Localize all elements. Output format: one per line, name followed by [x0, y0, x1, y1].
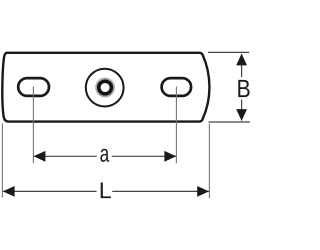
- arrowhead B bottom: [236, 109, 247, 121]
- left slot: [18, 78, 49, 96]
- arrowhead B top: [236, 54, 247, 66]
- extension line B top: [208, 51, 249, 53]
- arrowhead L left: [3, 186, 15, 197]
- extension line L right: [208, 124, 210, 199]
- center hole gray ring: [96, 79, 114, 97]
- arrowhead a left: [34, 151, 46, 162]
- right slot: [162, 78, 192, 96]
- arrowhead L right: [197, 186, 209, 197]
- label a: [100, 149, 109, 162]
- dimension line B (bottom segment): [241, 100, 243, 121]
- dimension line B (top segment): [241, 54, 243, 77]
- dimension line a (left segment): [34, 155, 97, 157]
- plate outline: [2, 53, 209, 122]
- label B: [238, 80, 249, 97]
- extension line from right slot center: [175, 87, 177, 164]
- dimension line L (left segment): [3, 190, 97, 192]
- center hole outer circle: [86, 69, 124, 107]
- arrowhead a right: [164, 151, 176, 162]
- center hole black ring: [99, 81, 112, 94]
- extension line L left: [1, 124, 3, 198]
- extension line from left slot center: [32, 87, 34, 164]
- extension line B bottom: [209, 121, 251, 123]
- dimension line L (right segment): [112, 190, 209, 192]
- dimension line a (right segment): [112, 155, 176, 157]
- label L: [101, 183, 111, 199]
